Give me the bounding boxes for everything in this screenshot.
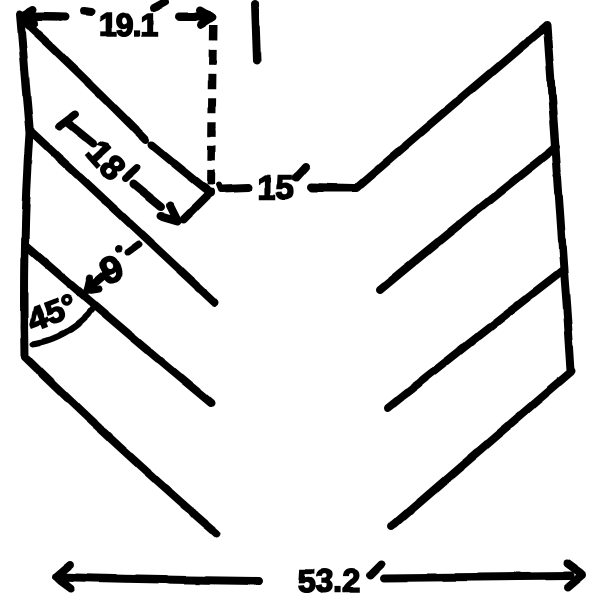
svg-text:53.2: 53.2 bbox=[298, 563, 360, 599]
svg-text:19.1: 19.1 bbox=[99, 7, 157, 43]
svg-text:15: 15 bbox=[257, 169, 294, 206]
